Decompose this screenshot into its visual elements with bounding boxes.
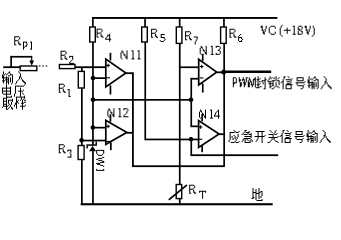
thermistor RT slash xyxy=(169,185,187,200)
resistor R3 xyxy=(78,146,84,160)
N13 minus sign xyxy=(200,77,204,78)
N11 power stub bottom xyxy=(110,85,112,94)
wire R3 bottom vertical xyxy=(81,160,83,204)
label RP1 xyxy=(14,36,21,45)
wire R4 top lead xyxy=(92,17,94,27)
wire RP1 wiper loop left xyxy=(10,56,12,67)
label R2 xyxy=(61,51,68,60)
resistor R5 xyxy=(142,27,148,42)
op-amp N11 xyxy=(106,59,126,87)
resistor R1 xyxy=(78,71,84,88)
resistor R4 xyxy=(90,27,96,42)
wire N11/N12 output vertical (chain C) xyxy=(132,72,134,165)
wire to N12 noninverting input xyxy=(93,127,106,129)
N11 power stub top xyxy=(110,53,112,61)
wire to N11 inverting input xyxy=(93,77,106,79)
resistor R6 xyxy=(221,27,227,43)
label ground xyxy=(252,188,263,201)
wire N12 output xyxy=(127,132,132,134)
N13 plus sign vertical xyxy=(201,65,202,69)
label RP1 subscript xyxy=(23,42,32,50)
N12 power stub bottom xyxy=(110,143,112,151)
zener diode DW1 body xyxy=(89,146,96,151)
wire R5 vertical xyxy=(144,42,146,139)
label R4 xyxy=(97,29,104,38)
wire R7-RT vertical xyxy=(179,43,181,184)
wire N14 inverting input xyxy=(191,139,199,141)
wire R6 top lead xyxy=(223,17,225,27)
label R5 xyxy=(151,29,158,38)
label R1 xyxy=(59,84,66,93)
wire RP1 wiper loop top xyxy=(10,56,32,58)
wire junction down to emergency line xyxy=(190,139,192,155)
N13 plus sign horizontal xyxy=(200,66,204,67)
label N11 xyxy=(121,50,141,59)
dotted wire fragment 1 xyxy=(39,65,41,67)
wire DW1 anode to ground rail xyxy=(92,151,94,204)
op-amp N13 xyxy=(199,59,217,85)
zener DW1 cathode bar left hook xyxy=(86,146,88,149)
junction N13 output / R6 / PWM out xyxy=(221,70,226,75)
N13 power stub top xyxy=(202,54,204,61)
N14 power stub bottom xyxy=(201,146,203,152)
wire R7 top lead xyxy=(179,17,181,27)
N12 plus sign vertical xyxy=(108,125,109,129)
junction chain B to N12 inverting input xyxy=(79,138,84,143)
N14 plus sign horizontal xyxy=(199,127,203,128)
N12 plus sign horizontal xyxy=(106,126,110,127)
wire junction down to N14 noninverting xyxy=(190,100,192,126)
wire PWM blocking signal output (thick) xyxy=(226,71,271,74)
wire to N12 inverting input xyxy=(82,140,106,142)
wire reference node to N13/N14 inputs xyxy=(93,99,191,101)
wire node A vertical (reference chain) xyxy=(92,42,94,145)
N11 minus sign xyxy=(106,77,110,78)
wire emergency switch signal input xyxy=(190,154,278,156)
wire RT bottom lead xyxy=(179,199,181,204)
label R4 subscript xyxy=(105,34,111,42)
wire R5 to N14 inverting input xyxy=(144,139,191,141)
label input voltage sampling line2 xyxy=(2,85,25,98)
RP1 wiper arrowhead xyxy=(29,61,34,66)
op-amp N12 xyxy=(106,120,127,144)
N14 minus sign xyxy=(199,139,203,140)
wire output bus N11/N12 to N13 chain xyxy=(132,165,225,167)
label N14 xyxy=(199,110,220,119)
wire R1 to R3 vertical xyxy=(81,88,83,146)
wire VC +18V top rail xyxy=(92,17,277,19)
wire R2 to N11 noninverting input xyxy=(75,66,106,68)
label N12 xyxy=(107,108,128,117)
wire RP1 wiper arrow stem xyxy=(31,56,32,61)
label R7 subscript xyxy=(194,37,198,45)
zener DW1 cathode bar right hook xyxy=(96,142,98,145)
N14 plus sign vertical xyxy=(200,125,201,129)
N12 power stub top xyxy=(110,114,112,121)
op-amp N14 xyxy=(199,121,220,148)
wire N14 output xyxy=(219,133,223,135)
N14 power stub top xyxy=(201,114,203,121)
thermistor RT body xyxy=(176,185,182,199)
junction node A to reference wire xyxy=(91,97,96,102)
label N13 xyxy=(200,46,221,55)
wire N14 noninverting input xyxy=(190,126,198,128)
wire R5 top lead xyxy=(144,17,146,27)
dotted wire fragment 3 xyxy=(46,65,48,67)
junction node A to N12 noninverting input xyxy=(91,125,96,130)
N11 plus sign vertical xyxy=(108,64,109,67)
wire N11 output xyxy=(126,72,133,74)
net label VC (+18V) xyxy=(261,25,315,37)
wire R6 / output vertical xyxy=(223,43,225,165)
junction reference to N13/N14 xyxy=(189,97,194,102)
junction N14 inverting / R5 wire / emergency line xyxy=(189,137,194,142)
wire to N13 noninverting input xyxy=(179,66,199,68)
label R6 xyxy=(230,29,237,38)
wire N13 inverting input xyxy=(190,78,198,80)
label R7 xyxy=(185,31,192,40)
junction node A to N11 inverting input xyxy=(91,76,96,81)
label input voltage sampling line3 xyxy=(2,97,26,110)
N13 power stub bottom xyxy=(202,84,204,93)
label R6 subscript xyxy=(238,34,243,42)
dotted wire fragment 2 xyxy=(42,65,44,67)
label PWM part xyxy=(233,77,256,87)
N12 minus sign xyxy=(106,141,110,142)
label R5 subscript xyxy=(160,34,166,42)
label DW1 xyxy=(96,150,104,171)
label R2 subscript xyxy=(69,56,74,64)
label PWM blocking signal input xyxy=(256,76,332,89)
label RT xyxy=(189,185,196,194)
zener diode DW1 cathode bar xyxy=(86,144,97,146)
label RT subscript xyxy=(199,191,206,199)
ground rail xyxy=(81,203,273,205)
resistor R2 xyxy=(59,65,75,69)
wire R1 top lead xyxy=(81,68,83,72)
wire input left xyxy=(3,66,20,68)
wire N13 output xyxy=(217,71,224,73)
label R1 subscript xyxy=(68,89,71,97)
label R3 subscript xyxy=(67,150,71,158)
label emergency switch signal input xyxy=(229,130,331,143)
resistor R7 xyxy=(176,27,182,43)
label input voltage sampling line1 xyxy=(2,71,26,84)
potentiometer RP1 body xyxy=(20,66,37,71)
label R3 xyxy=(59,144,66,153)
wire N13 inverting to reference junction xyxy=(190,78,192,100)
N11 plus sign horizontal xyxy=(106,65,110,66)
